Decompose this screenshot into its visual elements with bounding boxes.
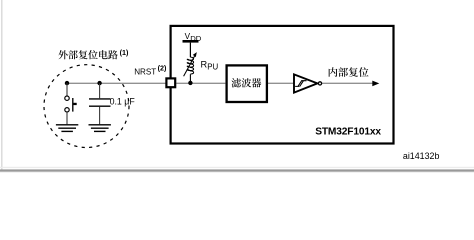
chip outline STM32F101xx bbox=[171, 26, 394, 144]
label 内部复位 bbox=[329, 67, 369, 77]
svg-text:(2): (2) bbox=[158, 63, 167, 72]
wire: switch to ground bbox=[66, 112, 68, 124]
ground (switch) bbox=[56, 125, 78, 132]
pushbutton actuator bar bbox=[72, 98, 74, 112]
svg-text:(1): (1) bbox=[120, 48, 129, 57]
svg-text:ai14132b: ai14132b bbox=[403, 151, 440, 161]
wire: NRST pin to filter bbox=[176, 82, 225, 84]
variable arrow through RPU bbox=[184, 54, 196, 76]
wire: dot to capacitor bbox=[99, 83, 101, 98]
wire: VDD to resistor bbox=[189, 43, 191, 58]
ground (capacitor) bbox=[89, 125, 111, 132]
VDD symbol bar bbox=[183, 40, 199, 43]
svg-text:STM32F101xx: STM32F101xx bbox=[315, 127, 381, 138]
wire: schmitt output to internal reset bbox=[321, 82, 372, 84]
dashed ellipse: external reset circuit bbox=[44, 65, 129, 148]
svg-text:PU: PU bbox=[207, 62, 218, 71]
node: junction dot switch branch bbox=[65, 81, 69, 85]
node: junction dot below RPU bbox=[188, 81, 192, 85]
page bottom rule bbox=[0, 167, 474, 168]
capacitor C 0.1uF bbox=[89, 98, 111, 100]
node: junction dot capacitor branch bbox=[97, 81, 101, 85]
filter box 滤波器 bbox=[227, 65, 267, 102]
wire: dot to switch bbox=[66, 83, 68, 96]
svg-text:DD: DD bbox=[190, 34, 202, 43]
resistor RPU (squiggle coil) bbox=[187, 57, 193, 74]
wire: capacitor to ground bbox=[99, 107, 101, 124]
wire: external circuit to NRST pin bbox=[67, 82, 166, 84]
page left border line bbox=[1, 0, 3, 170]
NRST pin pad bbox=[166, 78, 175, 87]
arrowhead internal reset bbox=[372, 81, 379, 87]
label 外部复位电路 bbox=[58, 50, 117, 59]
pushbutton switch contact circles bbox=[65, 96, 69, 100]
svg-text:0.1 μF: 0.1 μF bbox=[110, 97, 136, 107]
schmitt trigger U1 bbox=[294, 74, 317, 92]
hysteresis symbol bbox=[295, 81, 306, 87]
wire: resistor to node bbox=[189, 74, 191, 83]
inverter bubble bbox=[318, 82, 321, 85]
svg-text:NRST: NRST bbox=[134, 67, 156, 76]
wire: filter to schmitt trigger bbox=[268, 82, 294, 84]
